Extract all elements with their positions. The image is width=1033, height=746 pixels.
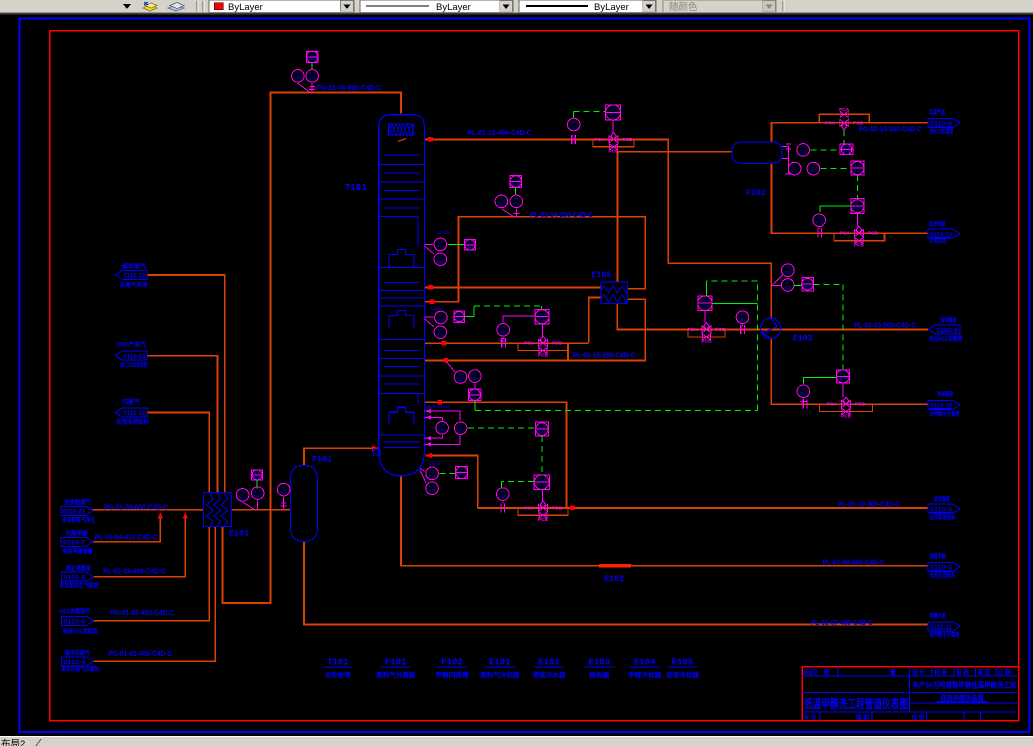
svg-text:931: 931 xyxy=(439,428,447,433)
svg-text:964: 964 xyxy=(800,391,808,396)
svg-text:0110-5: 0110-5 xyxy=(63,574,86,581)
svg-text:913: 913 xyxy=(498,201,506,206)
pipe F102 bottoms to reflux flag 0110-13 xyxy=(772,163,929,233)
shared controller PIC at E103 line xyxy=(698,296,712,311)
svg-text:922: 922 xyxy=(437,259,445,264)
svg-text:日 期: 日 期 xyxy=(998,668,1011,676)
pipe PG-01-05-600 raw gas feed to E101 xyxy=(93,509,204,511)
layers icon xyxy=(168,3,184,12)
instrument cluster at column top PG line xyxy=(307,51,318,62)
svg-text:校 审: 校 审 xyxy=(934,668,947,676)
flash drum F102 xyxy=(732,142,782,164)
title block grid xyxy=(802,676,1019,712)
svg-text:PCB: PCB xyxy=(552,341,563,347)
linetype combobox ByLayer xyxy=(360,0,513,12)
pipe E101 to separator F101 xyxy=(231,509,290,511)
svg-text:924: 924 xyxy=(437,332,445,337)
svg-text:F102: F102 xyxy=(441,658,463,668)
instrument cluster above E101 xyxy=(252,470,263,480)
svg-text:T101: T101 xyxy=(327,658,349,668)
column packing bed with hatch xyxy=(389,124,413,135)
svg-text:数: 数 xyxy=(824,668,830,676)
svg-text:解析尾气: 解析尾气 xyxy=(121,262,147,270)
heat exchanger E103 lean/rich interchanger xyxy=(760,318,780,338)
svg-text:E101: E101 xyxy=(229,529,249,539)
svg-text:贫甲醇液: 贫甲醇液 xyxy=(940,316,957,324)
svg-text:去H2S浓缩塔: 去H2S浓缩塔 xyxy=(929,128,954,136)
svg-text:PCA: PCA xyxy=(839,107,850,113)
green signal down to 0110-10 controller xyxy=(842,284,844,370)
svg-text:972: 972 xyxy=(810,168,818,173)
svg-text:E105: E105 xyxy=(591,270,611,280)
svg-text:933: 933 xyxy=(499,494,507,499)
instruments PT/PI at E103 inlet xyxy=(782,264,795,277)
svg-text:去再生塔给料: 去再生塔给料 xyxy=(930,572,956,580)
pipe CO2 product from E101 to flag 0110-23 xyxy=(148,356,218,493)
svg-text:描 图: 描 图 xyxy=(856,713,869,721)
instrument PI above butterfly on E103 line xyxy=(736,311,749,324)
instrument PI on overhead line xyxy=(567,118,580,131)
control valve station on E103 lean methanol line xyxy=(702,326,711,333)
svg-text:E104: E104 xyxy=(634,658,656,668)
flag 0110-11 methanol water outlet xyxy=(928,622,960,631)
svg-text:962: 962 xyxy=(739,317,747,322)
svg-text:906: 906 xyxy=(309,57,317,62)
flag 0110-23 CO2 product outlet xyxy=(115,351,147,360)
svg-text:去CO2回收: 去CO2回收 xyxy=(120,361,148,369)
pipe PL-01-04-410 flash methanol feed xyxy=(93,516,161,542)
svg-text:941: 941 xyxy=(429,473,437,478)
flag 0110-10 purified methanol outlet xyxy=(928,400,960,409)
svg-text:PCB: PCB xyxy=(538,352,549,358)
svg-text:甲醇冷却器: 甲醇冷却器 xyxy=(628,670,662,679)
instrument PI on 0110-10 line xyxy=(797,385,810,398)
flag 0110-21 raw gas inlet xyxy=(61,506,93,515)
svg-text:来自闪蒸气压缩机: 来自闪蒸气压缩机 xyxy=(61,665,99,673)
svg-text:PCB: PCB xyxy=(538,517,549,523)
svg-text:914: 914 xyxy=(512,181,520,186)
heat exchanger E102 inline cooler xyxy=(599,564,631,567)
pipe flash gas from E101 to flag 0110-12 xyxy=(148,412,209,492)
pipe E103 outlet down to methanol product line 0110-10 xyxy=(771,338,928,404)
flag 0110-5 outlet right xyxy=(928,504,960,513)
absorber column T101 shell xyxy=(379,115,425,452)
pipe PG-01-06-900 from E101 outlet up left side to column top xyxy=(223,92,402,603)
svg-text:E102: E102 xyxy=(538,658,560,668)
svg-text:来自H2S浓缩塔: 来自H2S浓缩塔 xyxy=(63,627,99,635)
svg-text:0110-23: 0110-23 xyxy=(123,353,146,360)
svg-text:标记: 标记 xyxy=(803,668,815,676)
instrument PI at F101 inlet xyxy=(277,483,290,496)
layer dropdown arrow button xyxy=(119,0,134,12)
svg-text:F101: F101 xyxy=(385,658,407,668)
plot style combobox disabled xyxy=(663,0,776,12)
svg-text:变换粗煤气: 变换粗煤气 xyxy=(64,498,92,506)
level instruments LT/LG upper column xyxy=(434,238,447,251)
svg-text:F101: F101 xyxy=(312,455,332,465)
svg-text:PL-01-14-250-C4D-C: PL-01-14-250-C4D-C xyxy=(530,212,593,219)
svg-text:PCB: PCB xyxy=(868,231,879,237)
pipe PL-01-15-250 column bottoms to E105 right pass xyxy=(425,299,646,360)
svg-text:PCA: PCA xyxy=(825,120,836,126)
svg-text:PL-02-13-500-C4D-C: PL-02-13-500-C4D-C xyxy=(854,322,916,329)
svg-text:ByLayer: ByLayer xyxy=(594,2,629,13)
svg-text:971: 971 xyxy=(843,149,851,154)
control valve station on methanol header xyxy=(539,504,548,511)
svg-text:T101: T101 xyxy=(345,183,367,193)
svg-text:PL-01-15-250-C4D-C: PL-01-15-250-C4D-C xyxy=(573,353,636,360)
svg-text:963: 963 xyxy=(784,270,792,275)
svg-text:贫液冷却器: 贫液冷却器 xyxy=(666,670,700,679)
flag 0110-4 recycle flash gas inlet xyxy=(61,657,93,666)
svg-text:933: 933 xyxy=(538,482,546,487)
svg-text:942: 942 xyxy=(429,488,437,493)
svg-text:902: 902 xyxy=(239,495,247,500)
svg-text:塔底冷水器: 塔底冷水器 xyxy=(533,670,567,679)
color combobox ByLayer xyxy=(209,0,354,12)
svg-text:E103: E103 xyxy=(793,334,813,344)
svg-text:PCB: PCB xyxy=(853,120,864,126)
flag 0110-8 flash gas to H2S concentrator xyxy=(928,118,960,127)
flow element FE/FT on PL-01-15 xyxy=(454,371,467,384)
svg-text:甲醇闪蒸槽: 甲醇闪蒸槽 xyxy=(436,670,470,679)
svg-text:PCB: PCB xyxy=(854,242,865,248)
flag 0110-6 H2S gas inlet xyxy=(61,616,93,625)
flag 0110-12 flash gas outlet xyxy=(115,408,147,417)
title block frame xyxy=(802,667,1019,721)
toolbar separator xyxy=(196,1,197,12)
svg-text:PCB: PCB xyxy=(608,149,619,155)
svg-text:PCB: PCB xyxy=(841,413,852,419)
svg-text:CO2产品气: CO2产品气 xyxy=(116,340,147,348)
svg-text:PG-01-01-400-C4D-C: PG-01-01-400-C4D-C xyxy=(108,651,172,658)
svg-text:原料气分离器: 原料气分离器 xyxy=(376,670,416,679)
svg-text:961: 961 xyxy=(702,303,710,308)
pipe F101 vapor to column bottom feed xyxy=(304,448,379,465)
svg-text:LG LI: LG LI xyxy=(431,306,444,312)
svg-text:贫甲醇液: 贫甲醇液 xyxy=(933,496,950,504)
svg-text:901: 901 xyxy=(254,493,262,498)
pipe column middle to E105 left upper nozzle xyxy=(425,286,602,288)
svg-text:973: 973 xyxy=(816,220,824,225)
svg-text:PCA: PCA xyxy=(524,505,535,511)
svg-text:914: 914 xyxy=(513,201,521,206)
svg-text:去尾气洗涤: 去尾气洗涤 xyxy=(120,281,148,289)
svg-text:回流甲醇: 回流甲醇 xyxy=(929,221,946,229)
F102 level bridle xyxy=(782,147,792,175)
svg-text:PG-01-02-400-C4D-C: PG-01-02-400-C4D-C xyxy=(110,610,174,617)
svg-text:903: 903 xyxy=(280,489,288,494)
separator drum F101 xyxy=(290,465,317,541)
level instruments LT/LG mid column xyxy=(435,311,448,324)
svg-text:PG-01-06-900-C4D-C: PG-01-06-900-C4D-C xyxy=(317,85,381,92)
pipe PL-01-12-400 column overhead to E103 xyxy=(425,139,772,318)
pipe PG-01-02-400 H2S gas to E101 xyxy=(93,527,209,621)
svg-text:低温甲醇洗装置: 低温甲醇洗装置 xyxy=(939,694,984,703)
heat exchanger E105 lean methanol cooler xyxy=(601,282,628,304)
svg-text:去预洗塔给料: 去预洗塔给料 xyxy=(116,418,149,426)
control valve station on 0110-8 flash gas line xyxy=(840,119,849,126)
level bridle on column y402-444 xyxy=(425,411,460,444)
pipe E105 bottom outlet through PV cluster and E103 to 0110-6 xyxy=(617,304,928,330)
svg-text:LI LG: LI LG xyxy=(437,230,450,236)
shared controller PRC on draw line xyxy=(535,309,549,324)
svg-text:来自H2S浓缩塔: 来自H2S浓缩塔 xyxy=(929,335,963,343)
svg-text:E101: E101 xyxy=(489,658,511,668)
svg-text:循环闪蒸气: 循环闪蒸气 xyxy=(65,649,91,657)
svg-text:布局2: 布局2 xyxy=(1,738,25,746)
svg-text:0110-6: 0110-6 xyxy=(63,619,86,626)
pipe E105 top outlet to flash drum F102 xyxy=(618,152,732,282)
pipe E105 lower-left nozzle loop xyxy=(589,298,601,344)
svg-text:PL-01-12-400-C4D-C: PL-01-12-400-C4D-C xyxy=(468,130,532,137)
svg-text:923: 923 xyxy=(456,316,464,321)
svg-text:905: 905 xyxy=(294,76,302,81)
svg-text:932: 932 xyxy=(539,429,547,434)
pipe column side draw y455 down to lean methanol header xyxy=(426,455,478,508)
svg-text:925: 925 xyxy=(539,317,547,322)
svg-text:972: 972 xyxy=(854,168,862,173)
svg-text:PL-01-03-400-C4D-C: PL-01-03-400-C4D-C xyxy=(103,569,166,576)
make layer icon xyxy=(143,2,157,11)
pipe tail gas from E101 to flag 0110-22 xyxy=(148,275,225,492)
svg-text:主吸收塔: 主吸收塔 xyxy=(325,670,352,679)
svg-text:PL-01-04-410-C4D-C: PL-01-04-410-C4D-C xyxy=(95,534,158,541)
svg-text:923: 923 xyxy=(437,317,445,322)
pipe PL-01-10-300 header to flag 0110-5 xyxy=(478,507,928,509)
svg-text:去甲醇水分离塔: 去甲醇水分离塔 xyxy=(930,631,961,639)
column bottom LG box xyxy=(374,449,381,455)
F102 instrument group xyxy=(797,144,810,157)
svg-text:972: 972 xyxy=(791,168,799,173)
heat exchanger E101 raw gas cooler xyxy=(204,492,232,526)
level gauge pair at column bottom dome xyxy=(426,467,439,480)
svg-text:901: 901 xyxy=(254,475,262,480)
svg-text:906: 906 xyxy=(309,76,317,81)
svg-text:PCB: PCB xyxy=(552,505,563,511)
column chimney tray sections with downcomers xyxy=(379,217,418,247)
svg-text:原料气冷却器: 原料气冷却器 xyxy=(480,670,520,679)
pipe column draw-off y343 with control station xyxy=(425,342,589,344)
svg-text:年产50万吨煤制甲醇低温甲醇洗工段: 年产50万吨煤制甲醇低温甲醇洗工段 xyxy=(913,680,1017,690)
svg-text:951: 951 xyxy=(471,395,479,400)
svg-text:PCA: PCA xyxy=(524,341,535,347)
instrument PI near PRC xyxy=(497,324,510,337)
svg-text:973: 973 xyxy=(854,206,862,211)
svg-text:PCB: PCB xyxy=(701,339,712,345)
pipe PL-01-07-400 F101 bottoms to flag 0110-11 xyxy=(304,542,928,625)
svg-text:951: 951 xyxy=(457,377,465,382)
svg-text:来自热再生气提塔: 来自热再生气提塔 xyxy=(59,582,99,590)
svg-text:闪蒸气体: 闪蒸气体 xyxy=(929,109,946,117)
svg-text:PCA: PCA xyxy=(840,231,851,237)
green signal LIC to PRC station xyxy=(464,306,474,317)
control valve station on 0110-13 reflux line xyxy=(854,230,863,237)
svg-text:ByLayer: ByLayer xyxy=(436,2,471,13)
control valve station on y343 draw line xyxy=(539,340,548,347)
flag 0110-13 reflux methanol outlet xyxy=(928,229,960,238)
svg-text:低温甲醇洗工段管道仪表图: 低温甲醇洗工段管道仪表图 xyxy=(803,696,908,711)
svg-text:PCA: PCA xyxy=(827,402,838,408)
pipe PL-01-14-250 column to E105 upper pass xyxy=(425,217,646,302)
shared controller PIC on overhead xyxy=(606,105,621,120)
pipe column draw y402 to header xyxy=(425,402,567,508)
svg-text:审 核: 审 核 xyxy=(956,668,969,676)
svg-text:净甲醇液: 净甲醇液 xyxy=(937,391,954,399)
svg-text:ByLayer: ByLayer xyxy=(228,2,263,13)
pipe PL-01-08-300 column bottom through E102 to flag 0110-4 xyxy=(401,476,928,566)
layout tab bar xyxy=(0,737,1033,746)
pipe PL-01-03-400 feed xyxy=(93,516,186,577)
svg-text:PL-01-10-300-C4D-C: PL-01-10-300-C4D-C xyxy=(838,501,900,508)
svg-text:来自甲醇储槽: 来自甲醇储槽 xyxy=(63,547,93,555)
svg-text:PCA: PCA xyxy=(687,327,698,333)
svg-text:951: 951 xyxy=(471,376,479,381)
svg-text:941: 941 xyxy=(458,472,466,477)
svg-text:F102: F102 xyxy=(746,188,766,198)
svg-text:PCB: PCB xyxy=(622,137,633,143)
butterfly valve on overhead line xyxy=(572,135,576,144)
flag 0110-7 flash methanol inlet xyxy=(61,537,93,546)
svg-text:0110-12: 0110-12 xyxy=(123,410,146,417)
svg-text:E102: E102 xyxy=(604,574,624,584)
control valve station on overhead line xyxy=(609,136,618,143)
svg-text:921: 921 xyxy=(437,244,445,249)
svg-text:PG-02-14-300-C4D-C: PG-02-14-300-C4D-C xyxy=(859,127,922,134)
flag 0110-6 lean methanol inlet right xyxy=(928,325,960,334)
svg-text:PL-01-07-400-C4D-C: PL-01-07-400-C4D-C xyxy=(811,620,873,627)
svg-text:921: 921 xyxy=(467,245,475,250)
lineweight combobox ByLayer xyxy=(519,0,656,12)
svg-text:0110-4: 0110-4 xyxy=(63,659,86,666)
flag 0110-4 outlet right xyxy=(928,562,960,571)
svg-text:闪蒸甲醇: 闪蒸甲醇 xyxy=(66,530,89,538)
pipe PG-02-14-300 F102 overhead flash gas to flag xyxy=(772,123,929,142)
green signal LT to LC and flow controller chain xyxy=(468,427,536,429)
pipe PG-01-01-400 recycle flash gas to E101 xyxy=(93,527,216,662)
svg-text:E103: E103 xyxy=(588,658,610,668)
svg-text:设 计: 设 计 xyxy=(912,668,925,676)
svg-text:E105: E105 xyxy=(672,658,694,668)
svg-text:964: 964 xyxy=(839,376,847,381)
svg-text:随颜色: 随颜色 xyxy=(669,1,698,13)
svg-text:910: 910 xyxy=(570,124,578,129)
svg-text:来自粗煤气净化: 来自粗煤气净化 xyxy=(62,516,95,524)
AutoCAD object-properties toolbar xyxy=(0,0,1033,13)
green signal loop FRC to E103 PIC xyxy=(475,409,757,411)
svg-text:PCA: PCA xyxy=(594,137,605,143)
svg-text:塔底甲醇: 塔底甲醇 xyxy=(930,553,947,561)
svg-text:审 定: 审 定 xyxy=(978,668,991,676)
svg-text:量: 量 xyxy=(890,668,896,676)
flag 0110-22 tail gas outlet xyxy=(115,270,147,279)
svg-text:XL FI LG LI: XL FI LG LI xyxy=(426,404,450,409)
svg-text:PG-01-05-600-C4D-C: PG-01-05-600-C4D-C xyxy=(104,504,168,511)
svg-text:去闪蒸塔给料: 去闪蒸塔给料 xyxy=(930,513,956,521)
svg-text:H2S浓缩塔气: H2S浓缩塔气 xyxy=(59,608,91,616)
svg-text:去再生塔: 去再生塔 xyxy=(929,237,947,245)
svg-text:963: 963 xyxy=(804,284,812,289)
svg-text:931: 931 xyxy=(457,428,465,433)
svg-text:再生甲醇液: 再生甲醇液 xyxy=(66,565,92,573)
flag 0110-5 regenerated methanol inlet xyxy=(61,572,93,581)
svg-text:0110-7: 0110-7 xyxy=(63,540,86,547)
svg-text:去甲醇水分离塔: 去甲醇水分离塔 xyxy=(930,410,961,418)
svg-text:专 业: 专 业 xyxy=(804,713,817,721)
svg-text:0110-21: 0110-21 xyxy=(63,509,86,516)
svg-text:LI LG: LI LG xyxy=(429,461,441,466)
svg-text:971: 971 xyxy=(800,150,808,155)
control valve station on 0110-10 product line xyxy=(842,401,851,408)
svg-text:闪蒸气: 闪蒸气 xyxy=(122,398,141,406)
svg-text:换热器: 换热器 xyxy=(589,670,610,679)
svg-text:PCB: PCB xyxy=(855,402,866,408)
svg-text:910: 910 xyxy=(610,112,618,117)
instrument TI/FT cluster on PL-01-14 xyxy=(510,176,522,188)
svg-text:PL-01-08-300-C4D-C: PL-01-08-300-C4D-C xyxy=(823,560,885,567)
svg-text:963: 963 xyxy=(784,285,792,290)
svg-text:比 例: 比 例 xyxy=(912,713,925,721)
svg-text:甲醇水液: 甲醇水液 xyxy=(930,612,947,620)
svg-text:925: 925 xyxy=(500,330,508,335)
column trays xyxy=(379,155,425,447)
svg-text:0110-22: 0110-22 xyxy=(123,273,146,280)
